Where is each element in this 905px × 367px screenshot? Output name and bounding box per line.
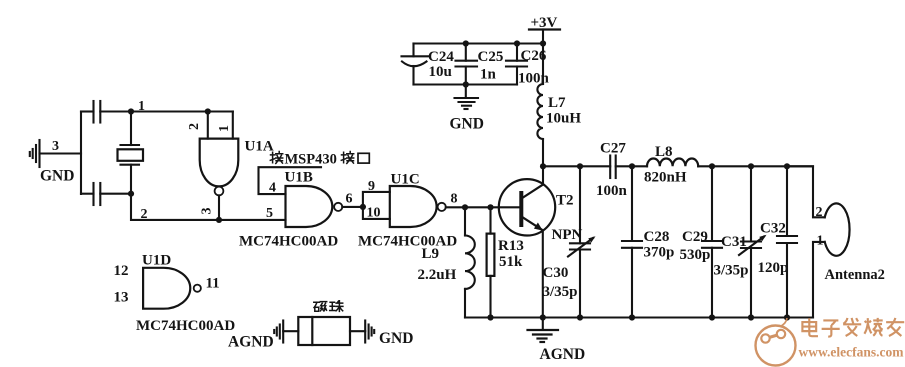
svg-text:L9: L9 <box>422 246 440 262</box>
op-amp U1C (NAND gate) <box>390 186 437 227</box>
junction <box>748 163 754 169</box>
svg-text:C24: C24 <box>428 49 454 65</box>
label CJK cizhu (magnetic bead) <box>314 301 343 312</box>
wire collector rail <box>543 165 610 167</box>
inductor L7 <box>537 84 543 139</box>
svg-text:C25: C25 <box>478 49 504 65</box>
capacitor C32 <box>777 166 797 317</box>
wire top rail <box>414 42 544 44</box>
svg-text:www.elecfans.com: www.elecfans.com <box>799 345 905 360</box>
svg-text:3: 3 <box>200 208 215 215</box>
capacitor C24 <box>402 44 429 85</box>
svg-text:4: 4 <box>269 181 276 196</box>
wire pin 4 hook <box>259 167 322 194</box>
capacitor C31 (variable) <box>739 166 767 317</box>
svg-text:100n: 100n <box>518 71 550 87</box>
wire <box>542 139 544 184</box>
svg-text:3: 3 <box>52 139 59 154</box>
crystal Y1 <box>118 112 144 194</box>
wire bottom rail (AGND net) <box>465 316 813 318</box>
svg-text:C31: C31 <box>721 234 747 250</box>
svg-text:10u: 10u <box>429 64 452 80</box>
svg-text:2: 2 <box>141 207 148 222</box>
svg-text:GND: GND <box>40 168 74 185</box>
junction <box>128 108 134 114</box>
bubble U1C output <box>438 203 446 211</box>
svg-text:C29: C29 <box>682 229 708 245</box>
svg-text:AGND: AGND <box>540 346 586 363</box>
svg-text:1: 1 <box>217 125 232 132</box>
svg-text:MSP430: MSP430 <box>285 152 337 168</box>
junction <box>709 314 715 320</box>
svg-text:530p: 530p <box>680 247 711 263</box>
junction <box>748 314 754 320</box>
svg-text:2: 2 <box>816 205 823 220</box>
op-amp U1A (NAND gate, vertical) <box>200 139 239 187</box>
svg-text:9: 9 <box>368 179 375 194</box>
bubble U1D output <box>194 285 201 292</box>
svg-text:U1A: U1A <box>245 139 274 155</box>
junction <box>514 40 520 46</box>
capacitor bottom (load cap) <box>81 183 131 205</box>
ground <box>30 140 40 167</box>
wire U1B output pin 6 <box>342 206 363 208</box>
svg-text:100n: 100n <box>596 183 628 199</box>
junction <box>216 217 222 223</box>
junction <box>784 314 790 320</box>
svg-text:3/35p: 3/35p <box>714 263 749 279</box>
wire <box>542 44 544 85</box>
svg-text:MC74HC00AD: MC74HC00AD <box>239 234 338 250</box>
svg-text:C30: C30 <box>543 265 569 281</box>
wire <box>80 112 82 195</box>
wire <box>283 330 298 332</box>
svg-text:NPN: NPN <box>552 227 583 243</box>
op-amp U1B (NAND gate) <box>286 186 333 227</box>
wire <box>350 330 365 332</box>
wire antenna bottom <box>813 242 825 318</box>
svg-text:Antenna2: Antenna2 <box>825 267 885 283</box>
wire pin1 of U1A <box>232 112 234 139</box>
wire antenna top <box>787 166 825 217</box>
svg-text:MC74HC00AD: MC74HC00AD <box>358 234 457 250</box>
svg-text:6: 6 <box>346 192 353 207</box>
svg-text:L7: L7 <box>548 95 566 111</box>
wire emitter <box>542 231 544 318</box>
svg-text:2.2uH: 2.2uH <box>418 267 457 283</box>
svg-text:8: 8 <box>451 192 458 207</box>
svg-text:C28: C28 <box>644 229 670 245</box>
inductor L8 <box>647 158 698 166</box>
power +3V <box>529 15 560 44</box>
op-amp U1D (NAND gate) <box>143 268 190 309</box>
svg-text:2: 2 <box>187 123 202 130</box>
svg-text:C27: C27 <box>600 141 626 157</box>
svg-text:U1D: U1D <box>142 253 171 269</box>
junction <box>463 81 469 87</box>
capacitor C25 <box>456 44 478 85</box>
svg-text:R13: R13 <box>498 238 524 254</box>
wire <box>698 165 813 167</box>
capacitor C26 <box>506 44 527 85</box>
ferrite bead body <box>298 317 350 345</box>
junction <box>540 163 546 169</box>
junction <box>784 163 790 169</box>
svg-text:10uH: 10uH <box>546 111 581 127</box>
junction <box>540 40 546 46</box>
svg-text:12: 12 <box>114 263 129 279</box>
junction <box>629 163 635 169</box>
SECTION: watermark <box>756 318 905 366</box>
junction <box>463 40 469 46</box>
junction <box>487 204 493 210</box>
bubble U1A output <box>215 187 224 196</box>
capacitor C27 <box>610 156 616 179</box>
junction <box>360 204 366 210</box>
junction <box>709 163 715 169</box>
junction <box>487 314 493 320</box>
svg-text:13: 13 <box>114 290 129 306</box>
wire bottom of caps <box>414 83 518 85</box>
wire <box>40 152 82 154</box>
capacitor top (load cap) <box>81 101 131 123</box>
svg-text:1: 1 <box>138 99 145 114</box>
wire <box>616 165 647 167</box>
svg-text:5: 5 <box>266 206 273 221</box>
svg-text:3/35p: 3/35p <box>543 284 578 300</box>
svg-text:1n: 1n <box>480 67 497 83</box>
ground AGND (bead left) <box>274 321 283 343</box>
capacitor C29 <box>702 166 722 317</box>
svg-text:GND: GND <box>450 116 484 133</box>
svg-text:T2: T2 <box>556 193 574 209</box>
wire U1C output pin 8 (base node) <box>446 206 521 208</box>
junction <box>629 314 635 320</box>
transistor T2 <box>499 179 555 235</box>
svg-text:C32: C32 <box>760 221 786 237</box>
inductor L9 <box>465 207 475 317</box>
bubble U1B output <box>334 203 342 211</box>
svg-text:MC74HC00AD: MC74HC00AD <box>136 318 235 334</box>
junction <box>540 314 546 320</box>
svg-text:GND: GND <box>379 330 413 347</box>
junction <box>577 163 583 169</box>
svg-text:10: 10 <box>367 206 381 221</box>
antenna loop Antenna2 <box>825 203 850 255</box>
junction <box>577 314 583 320</box>
svg-text:51k: 51k <box>499 254 523 270</box>
capacitor C30 (variable) <box>568 166 596 317</box>
wire U1A output pin 3 <box>218 195 220 220</box>
svg-text:U1B: U1B <box>285 170 313 186</box>
svg-text:1: 1 <box>817 234 824 249</box>
capacitor C28 <box>622 166 642 317</box>
junction <box>205 108 211 114</box>
svg-text:820nH: 820nH <box>644 170 687 186</box>
ground GND (bead right) <box>365 321 374 343</box>
node 2 wire <box>131 194 286 220</box>
junction <box>128 191 134 197</box>
svg-text:120p: 120p <box>758 260 789 276</box>
ground GND center <box>455 85 479 110</box>
svg-text:370p: 370p <box>644 245 675 261</box>
node 1 wire <box>131 110 233 112</box>
svg-text:L8: L8 <box>655 144 673 160</box>
wire pin2 of U1A <box>207 112 209 139</box>
resistor R13 <box>487 207 495 317</box>
ground AGND <box>528 318 559 343</box>
junction <box>462 204 468 210</box>
svg-text:11: 11 <box>206 276 220 292</box>
svg-text:AGND: AGND <box>228 334 274 351</box>
label MSP430 interface (CJK) 接MSP430接口 <box>270 152 369 168</box>
wire U1C input box <box>363 192 390 219</box>
